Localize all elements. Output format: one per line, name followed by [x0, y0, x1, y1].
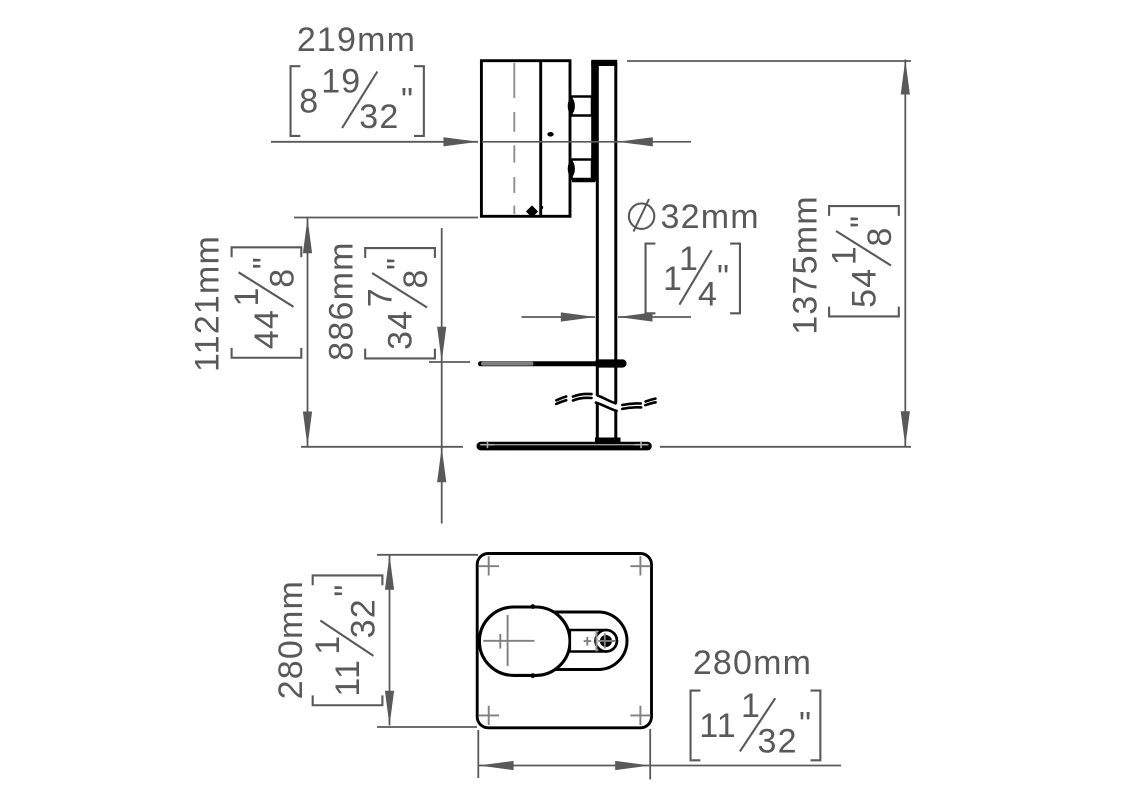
svg-text:": ": [380, 258, 418, 270]
svg-text:34: 34: [382, 310, 420, 350]
svg-text:219mm: 219mm: [297, 21, 416, 59]
plan ext below right: [649, 729, 651, 780]
corner center mark TR: [630, 565, 650, 567]
inner slot: [570, 630, 617, 652]
svg-text:8: 8: [861, 228, 899, 247]
svg-text:": ": [799, 706, 811, 744]
svg-text:32: 32: [359, 98, 399, 136]
ext line pole top: [627, 60, 911, 62]
oval crosshair: [483, 640, 534, 642]
pole right edge: [614, 63, 617, 403]
svg-text:": ": [401, 81, 413, 119]
dim line 1375mm: [904, 60, 906, 447]
base center mark right: [634, 444, 647, 446]
svg-text:44: 44: [248, 309, 286, 349]
svg-text:1: 1: [741, 687, 760, 725]
label dia 32mm: [629, 198, 760, 236]
pole top cap: [591, 60, 617, 66]
svg-text:280mm: 280mm: [272, 580, 310, 699]
inner slot divider: [595, 630, 617, 652]
bolt dot: [600, 635, 612, 647]
ext line floor right: [660, 446, 911, 448]
base plate (plan): [477, 554, 651, 728]
pipe break lower cut: [596, 403, 617, 411]
ext line display bottom: [294, 217, 478, 219]
svg-text:1: 1: [228, 288, 266, 307]
fraction 34 7/8 in (vertical): [362, 248, 435, 358]
svg-text:8: 8: [397, 270, 435, 289]
base gray centerline: [480, 444, 649, 446]
pole left edge: [596, 63, 599, 396]
svg-text:7: 7: [362, 288, 400, 307]
fraction 44 1/8 in (vertical): [228, 247, 301, 357]
bracket step bottom edge: [572, 180, 595, 182]
shelf gray highlight: [481, 362, 534, 366]
svg-text:1375mm: 1375mm: [787, 195, 825, 334]
inner slot gray line: [596, 631, 598, 652]
svg-text:": ": [247, 257, 285, 269]
oval top/bottom dots: [530, 604, 535, 609]
svg-text:": ": [717, 259, 729, 297]
dim line 1121mm: [307, 218, 309, 447]
spacer block upper: [572, 97, 593, 116]
break tilde left short: [556, 397, 566, 401]
mounting plate: [591, 61, 597, 182]
break tilde left long: [556, 394, 655, 409]
display panel outer rectangle: [481, 61, 570, 217]
corner center mark TL: [479, 556, 651, 725]
break tilde right long: [622, 403, 641, 405]
dim line dia32 left: [522, 316, 596, 318]
arrowheads: [303, 60, 910, 771]
svg-text:886mm: 886mm: [323, 241, 361, 360]
svg-text:8: 8: [263, 269, 301, 288]
plan ext bottom-left: [377, 726, 477, 728]
dim line 219mm: [271, 141, 478, 143]
plan dim 280 bottom: [479, 765, 841, 767]
dim line dia32 right: [618, 316, 691, 318]
base (side view): [477, 442, 652, 451]
svg-text:32: 32: [345, 598, 383, 638]
pole boss oval: [479, 607, 570, 675]
plan dim 280 left: [389, 555, 391, 726]
svg-text:4: 4: [698, 275, 717, 313]
svg-text:11: 11: [699, 707, 737, 745]
svg-text:": ": [328, 585, 366, 597]
svg-text:1: 1: [679, 240, 698, 278]
break tilde right short: [646, 399, 656, 402]
dim line 886mm: [441, 228, 443, 524]
fraction 54 1/8 in (vertical): [826, 206, 899, 316]
plan ext below left: [477, 730, 479, 778]
svg-text:1: 1: [826, 246, 864, 265]
display inner divider line: [539, 61, 542, 217]
svg-text:1121mm: 1121mm: [189, 235, 227, 372]
bolt crosshair: [483, 615, 615, 666]
pipe break upper cut: [598, 396, 616, 404]
corner center mark BL: [479, 714, 499, 716]
svg-text:": ": [844, 216, 882, 228]
ext line floor left: [301, 446, 463, 448]
spacer block lower: [572, 160, 593, 180]
svg-text:8: 8: [299, 83, 318, 121]
display centerline (dashed): [513, 63, 515, 214]
base center mark left: [481, 441, 648, 448]
fraction 1 1/4 in: [646, 240, 740, 313]
svg-text:280mm: 280mm: [693, 644, 812, 682]
svg-text:54: 54: [846, 268, 884, 308]
svg-text:32: 32: [758, 722, 798, 760]
small dot on display: [547, 132, 553, 137]
fraction 8 19/32 in: [291, 63, 424, 136]
small diamond mark on display bottom: [526, 205, 538, 217]
svg-text:32mm: 32mm: [661, 198, 760, 236]
plan ext top: [377, 554, 478, 556]
fraction 11 1/32 in bottom: [691, 687, 821, 760]
pole-base joint: [595, 438, 621, 443]
clamp slot (capsule): [520, 612, 627, 670]
corner center mark BR: [630, 714, 650, 716]
svg-text:11: 11: [329, 659, 367, 697]
fraction 11 1/32 in (vertical): [309, 575, 382, 705]
svg-text:1: 1: [309, 636, 347, 655]
small cross mark: [584, 640, 592, 642]
shelf: [478, 361, 627, 366]
ext line shelf: [429, 361, 470, 363]
svg-text:19: 19: [321, 63, 361, 101]
